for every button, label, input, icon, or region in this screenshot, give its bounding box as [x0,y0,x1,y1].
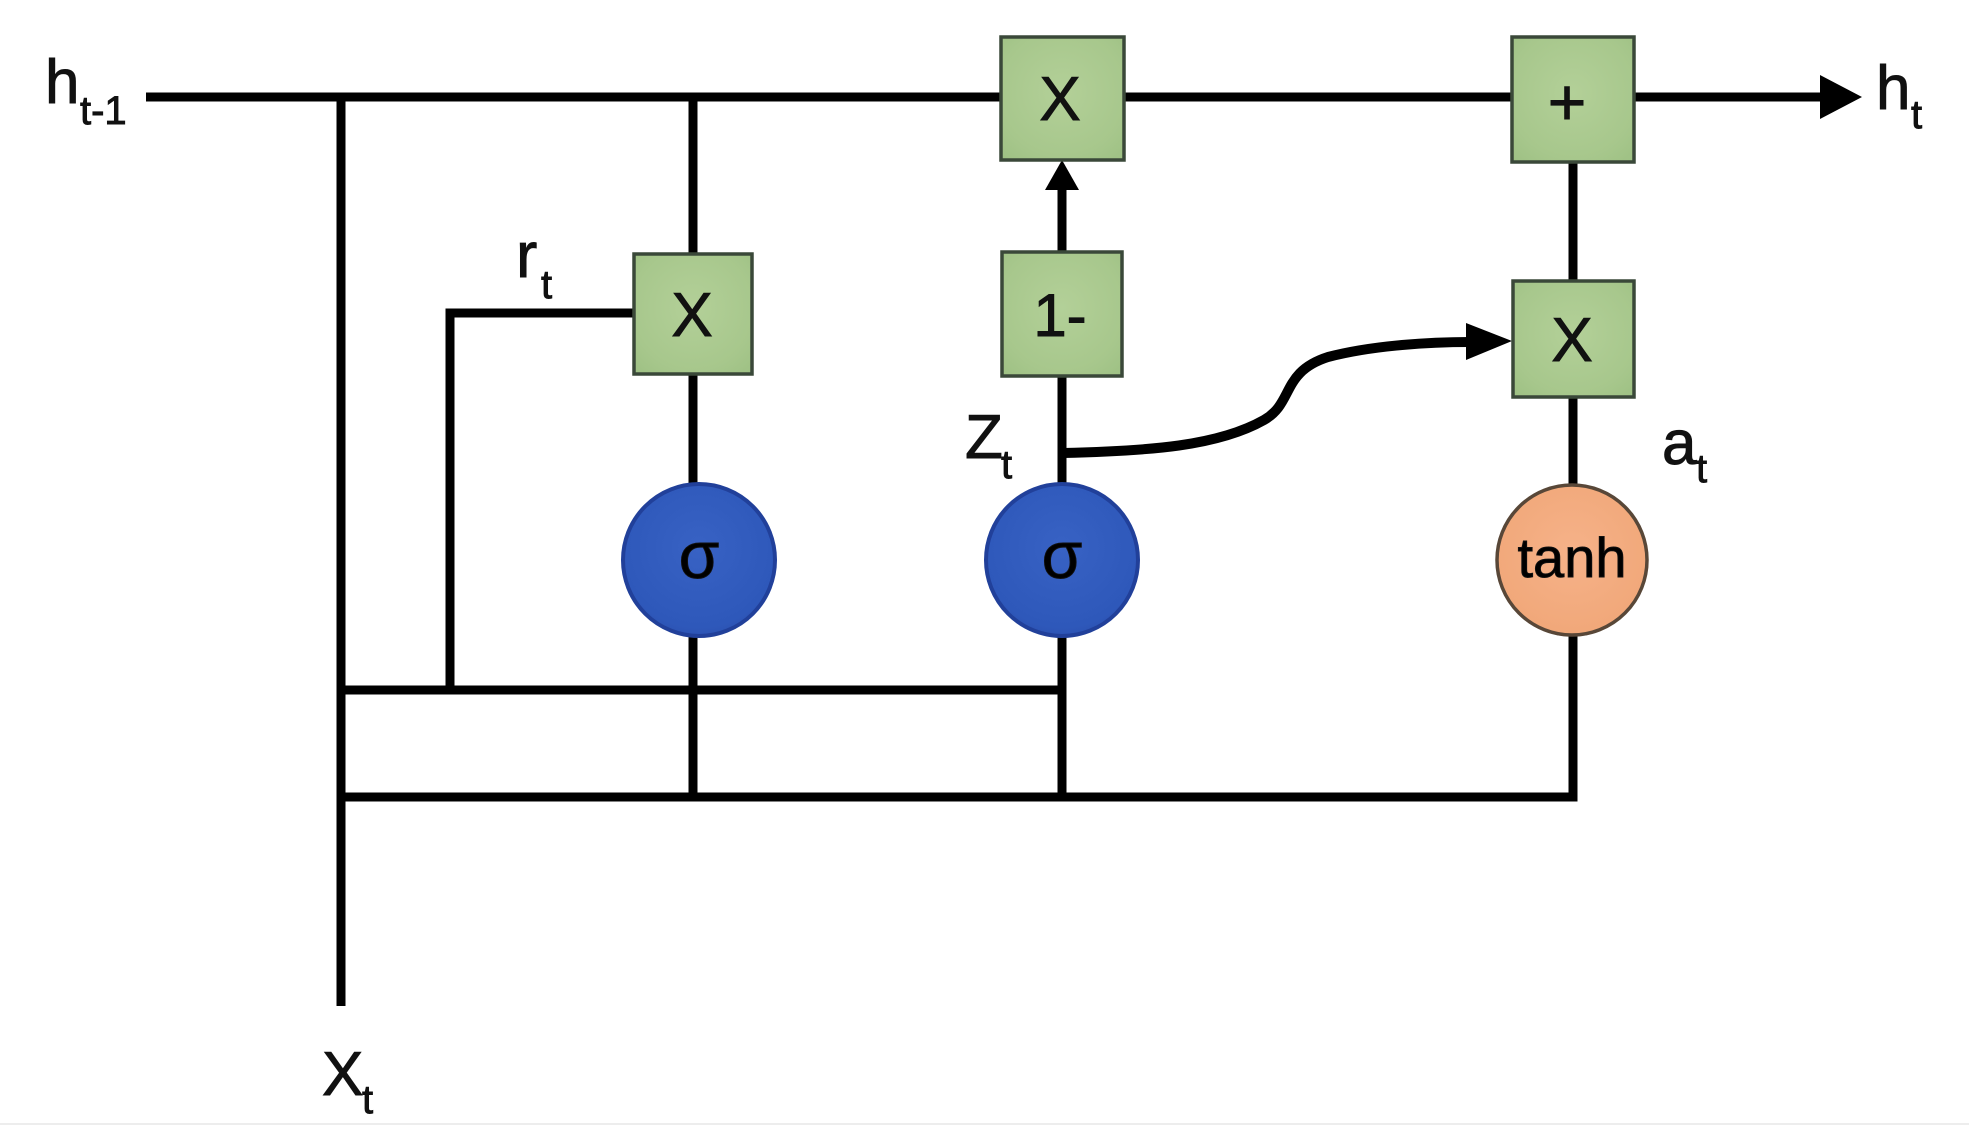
svg-text:1-: 1- [1033,282,1086,349]
op box X3 update multiply [1513,281,1634,397]
wire: left vertical trunk down to X_t [337,93,346,1006]
arrowhead: into X3 box [1466,323,1512,360]
svg-text:X: X [1551,306,1592,375]
gate sigma2 update [986,484,1138,636]
wire: x-feed horizontal line up to tanh column [341,394,1573,797]
arrowhead: into X1 box [1045,160,1079,190]
label h_t [1876,54,1922,137]
gate sigma1 reset [623,484,775,636]
svg-text:r: r [516,219,537,291]
svg-text:t-1: t-1 [80,89,127,133]
arrowhead: h_t output [1820,75,1862,119]
op box plus adder [1512,37,1634,162]
svg-text:a: a [1662,409,1697,478]
wire: reset column lower segment (X2 box through sigma1 to x-feed line) [689,371,698,797]
label a_t [1662,409,1707,491]
gate tanh candidate [1497,485,1647,635]
op box X2 reset multiply [634,254,752,374]
svg-text:t: t [362,1078,373,1122]
svg-text:X: X [671,281,712,350]
op box X1 multiply on h line [1001,37,1124,160]
label X_t [322,1040,373,1122]
wire: r_t elbow into X2 box [450,313,636,690]
svg-text:h: h [1876,54,1910,123]
svg-text:X: X [322,1040,363,1109]
wire: reset column upper segment (top line to X2 box) [689,97,698,258]
svg-text:X: X [1039,65,1080,134]
op box 1- one-minus [1002,252,1122,376]
wire: z_t curved arrow to X3 [1063,342,1470,453]
svg-text:t: t [541,263,552,307]
svg-text:t: t [1001,443,1012,487]
svg-text:σ: σ [1042,518,1083,592]
svg-text:Z: Z [965,403,1003,472]
label z_t [965,403,1012,487]
label h_t-1 [45,48,127,133]
svg-text:t: t [1911,93,1922,137]
wire: h-feed horizontal line [341,686,1062,695]
wire: 1- box up to X1 box shaft [1058,186,1067,252]
svg-text:h: h [45,48,79,117]
svg-text:+: + [1548,65,1587,139]
svg-text:t: t [1696,447,1707,491]
wire: update column below 1- box through sigma2 [1058,373,1067,797]
wire: plus box down to X3 box [1569,160,1578,284]
wire: h_t-1 to h_t top line [146,93,1827,102]
label r_t [516,219,552,307]
svg-text:σ: σ [679,518,720,592]
svg-text:tanh: tanh [1518,526,1627,589]
